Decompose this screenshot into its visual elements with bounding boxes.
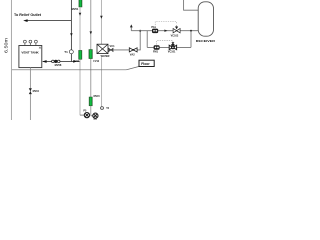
vessel VENT TANK (19, 46, 42, 68)
svg-text:FV12: FV12 (93, 60, 99, 63)
wire stub to pump P5 (80, 114, 84, 116)
vent stack 1 (24, 40, 27, 45)
svg-text:6.50m: 6.50m (3, 37, 8, 53)
pump PA1 (152, 29, 158, 33)
wire vent return line to tank (43, 61, 80, 63)
svg-text:MV08: MV08 (55, 63, 62, 67)
control valve VC102 (173, 25, 180, 33)
wire dashed signal PA1 to VC102 (155, 22, 176, 28)
wire T1 riser (70, 0, 72, 62)
mark x in tank (39, 47, 41, 49)
svg-text:PA1: PA1 (151, 26, 156, 29)
arrow flow right on row1 (164, 30, 167, 32)
wire dashed signal FM1 to VC101 (157, 41, 173, 45)
wire stub to pump P6 (91, 115, 93, 117)
arrow down on green-B riser (90, 31, 93, 34)
wire receiver top inlet (184, 0, 199, 10)
arrow signal down to VC101 (172, 42, 175, 44)
vent stack 3 (35, 40, 38, 45)
wire green-A riser (79, 7, 81, 115)
svg-text:FM1: FM1 (153, 51, 159, 54)
wire main supply row1 (131, 30, 198, 32)
pump P6 (93, 113, 98, 118)
vent stack 2 (29, 40, 32, 45)
vessel RECEIVER (198, 2, 213, 36)
svg-text:T1: T1 (64, 50, 68, 54)
wire relief outlet line (25, 20, 72, 22)
valve VA2 (129, 48, 137, 52)
valve VC1 (boxed X) (97, 44, 108, 53)
svg-text:MV15: MV15 (94, 95, 101, 98)
svg-text:FV11: FV11 (74, 60, 80, 63)
wire riser row1 to row2 (146, 31, 148, 48)
svg-text:VENT TANK: VENT TANK (21, 51, 39, 55)
control valve VC101 (169, 44, 176, 50)
instrument T1 (69, 50, 73, 54)
valve FV11 (green) (79, 50, 82, 59)
wire green-B riser (90, 0, 92, 116)
arrow down on water feed (100, 16, 103, 19)
svg-text:VC1: VC1 (110, 44, 116, 48)
svg-text:To Relief Outlet: To Relief Outlet (14, 13, 42, 17)
arrow into tank (left) (42, 60, 46, 63)
wire water drop line (101, 57, 103, 106)
node junction at top of branch (139, 30, 141, 32)
arrow vent stub up (130, 24, 133, 27)
svg-text:VC101: VC101 (168, 51, 176, 54)
valve small at VC1 outlet (109, 48, 113, 51)
instrument T3 (101, 107, 104, 110)
wire row2 (147, 46, 191, 48)
arrow right on vent return (73, 60, 76, 62)
pump P5 (84, 113, 89, 118)
wire riser x191 (190, 31, 192, 48)
valve MV01 (green, top edge) (79, 0, 82, 7)
wire branch riser x141 (139, 31, 141, 50)
svg-text:VA2: VA2 (130, 53, 135, 57)
arrow down on T1 riser (70, 33, 73, 36)
arrow down on green-A riser (79, 13, 82, 16)
wire left riser pipe (10, 0, 12, 120)
flow meter FM1 (154, 45, 160, 49)
valve MV15 (green) (89, 97, 92, 106)
wire floor line (12, 66, 139, 69)
svg-text:VC102: VC102 (171, 34, 179, 37)
wire tank drain (29, 68, 31, 120)
wire water feed riser (100, 0, 102, 44)
valve MV04 (29, 88, 32, 94)
svg-text:MV01: MV01 (72, 7, 79, 11)
label box Floor (139, 60, 154, 66)
valve FV12 (green) (89, 50, 93, 59)
wire water row to VA2 (108, 49, 141, 51)
node junction row1/row2 riser (190, 30, 192, 32)
wire vent stub up (130, 26, 132, 31)
svg-text:Floor: Floor (141, 62, 150, 66)
svg-text:RECEIVER: RECEIVER (196, 39, 215, 43)
arrow relief flow left (23, 19, 27, 22)
valve VC9 body (52, 60, 60, 63)
svg-text:MV04: MV04 (33, 90, 40, 93)
